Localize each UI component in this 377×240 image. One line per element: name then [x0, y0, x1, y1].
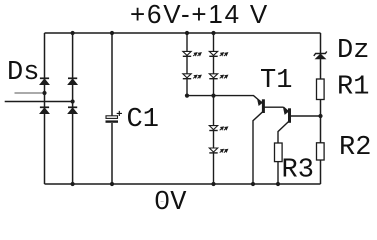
wire LED column B lower	[213, 96, 215, 184]
svg-text:C1: C1	[127, 105, 159, 135]
LED D5	[209, 126, 227, 131]
resistor R2	[317, 143, 325, 160]
transistor Q1 (T1 first)	[253, 99, 284, 184]
node 0V bottom rail	[45, 183, 321, 185]
svg-text:0V: 0V	[154, 188, 187, 213]
diode Ds (branch1 upper)	[40, 78, 49, 84]
LED D2	[183, 74, 201, 79]
svg-text:+6V-+14 V: +6V-+14 V	[130, 0, 269, 29]
svg-text:T1: T1	[260, 66, 292, 96]
LED D3	[209, 51, 227, 56]
svg-text:R1: R1	[337, 73, 369, 103]
svg-text:+: +	[116, 108, 122, 120]
capacitor C1 wire	[111, 33, 113, 116]
diode Ds (branch1 lower)	[40, 107, 49, 113]
svg-text:Dz: Dz	[337, 36, 369, 66]
transistor Q2 (T1 second)	[278, 107, 321, 143]
wire bridge branch 2	[72, 33, 74, 184]
wire left border branch (bridge branch 1)	[44, 33, 46, 184]
wire LED column A	[186, 33, 188, 96]
LED D1	[183, 51, 201, 56]
wire AC input 2	[5, 101, 73, 103]
resistor R3	[275, 143, 283, 162]
LED D4	[209, 74, 227, 79]
svg-text:R2: R2	[339, 133, 371, 163]
wire right column	[320, 33, 322, 184]
svg-text:Ds: Ds	[7, 58, 39, 88]
capacitor C1	[106, 116, 119, 123]
LED D6	[209, 148, 227, 153]
wire LED column B upper	[213, 33, 215, 96]
zener diode Dz	[314, 52, 327, 59]
svg-text:R3: R3	[282, 156, 314, 186]
node +6V-+14V top supply rail	[45, 32, 321, 34]
wire LED junction to T1 emitter	[187, 96, 262, 103]
wire AC input 1	[15, 92, 45, 94]
diode Ds (branch2 upper)	[68, 78, 77, 84]
wire R3 to 0V	[277, 162, 279, 184]
resistor R1	[317, 79, 325, 100]
diode Ds (branch2 lower)	[68, 107, 77, 113]
